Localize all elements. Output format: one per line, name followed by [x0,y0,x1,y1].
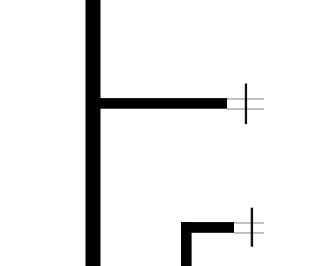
pin tick bottom [251,208,253,247]
wire: vertical bus segment [86,0,101,266]
pin outline top (lower thin line) [227,108,264,109]
wire: top horizontal segment [96,98,227,109]
pin outline top (upper thin line) [227,98,264,99]
wire: bottom L vertical leg [181,222,192,266]
pin outline bottom (lower thin line) [234,232,264,233]
pin tick top [245,84,247,125]
pin outline bottom (upper thin line) [234,222,264,223]
wire: bottom L horizontal segment [181,222,234,233]
